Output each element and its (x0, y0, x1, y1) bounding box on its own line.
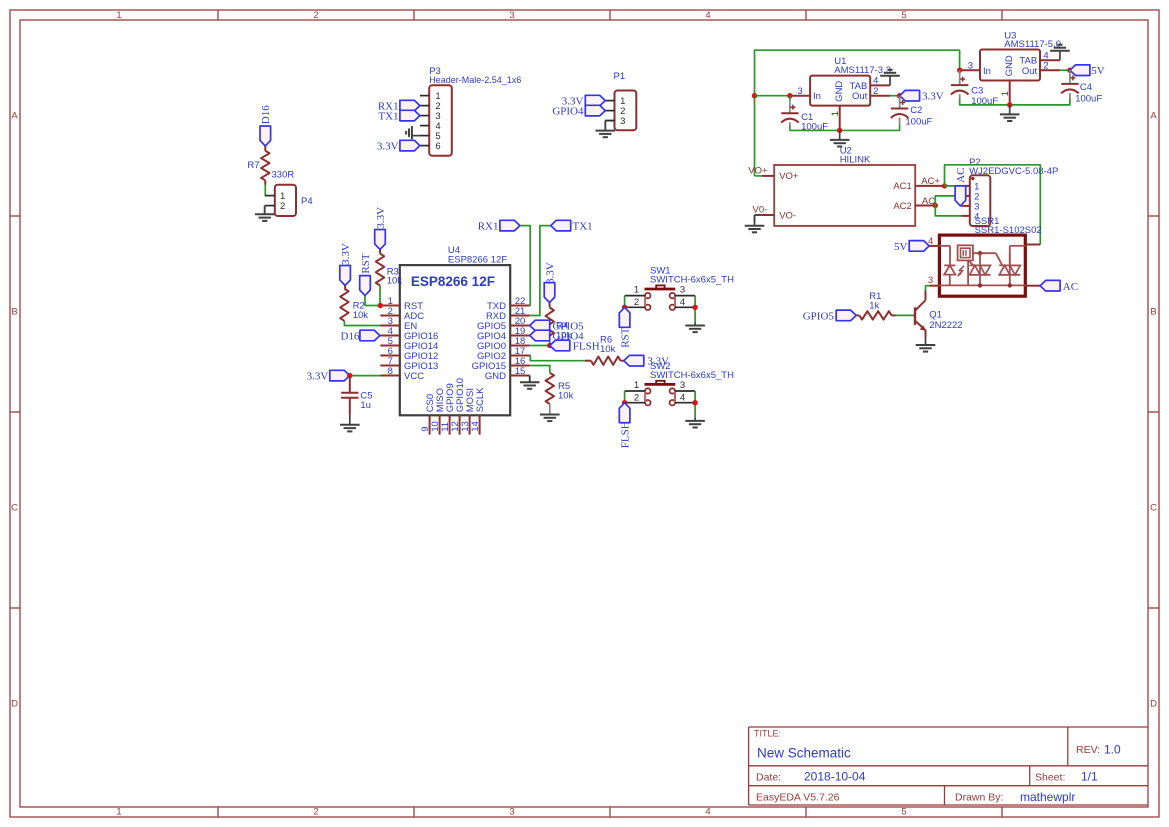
P1 pins 1-3 (605, 100, 614, 102)
net flag GPIO5 (836, 310, 856, 321)
SSR1 right bottom pin (1025, 285, 1040, 287)
capacitor C3 lead (959, 94, 961, 99)
regulator U3 AMS1117-5.0 (980, 50, 1040, 81)
svg-text:2: 2 (634, 297, 639, 308)
capacitor C3 lead (959, 70, 961, 85)
SW pin 4 (675, 306, 695, 308)
svg-text:C2: C2 (910, 105, 922, 116)
svg-text:3.3V: 3.3V (340, 243, 352, 265)
wire (344, 286, 346, 289)
svg-text:Date:: Date: (756, 772, 781, 784)
net flag GPIO4 (530, 330, 550, 341)
U3 pin 1 GND (1009, 81, 1011, 105)
SW pin 3 (675, 390, 695, 392)
capacitor C4 lead (1069, 70, 1071, 84)
svg-text:4: 4 (873, 76, 878, 87)
junction (752, 93, 757, 98)
svg-text:3.3V: 3.3V (307, 371, 329, 383)
wire (1060, 69, 1070, 71)
svg-text:SCLK: SCLK (475, 387, 486, 412)
ground (529, 381, 531, 384)
header P1 (615, 91, 637, 131)
svg-text:AC2: AC2 (893, 201, 911, 212)
capacitor C1 lead (789, 101, 791, 114)
svg-text:3: 3 (680, 285, 685, 296)
svg-text:FLSH: FLSH (573, 340, 600, 352)
ground (inverted) (1059, 51, 1061, 61)
wire (926, 286, 930, 291)
wire (755, 95, 790, 97)
net flag FLSH (550, 340, 570, 351)
svg-text:5: 5 (901, 807, 906, 818)
svg-text:15: 15 (515, 366, 526, 377)
junction (957, 68, 962, 73)
svg-text:AC: AC (955, 168, 967, 183)
svg-text:3.3V: 3.3V (544, 262, 556, 284)
svg-text:3: 3 (928, 275, 933, 286)
svg-text:1: 1 (1000, 91, 1011, 96)
svg-text:3: 3 (620, 116, 625, 127)
SW pin 1 (625, 390, 646, 392)
wire GPIO15-R5 (530, 366, 550, 373)
svg-text:C: C (1150, 503, 1157, 514)
svg-text:1k: 1k (869, 301, 879, 312)
U2 pin AC1 (915, 185, 944, 187)
svg-text:3: 3 (968, 61, 973, 72)
svg-text:1: 1 (634, 285, 639, 296)
ground (1009, 105, 1011, 115)
svg-text:RST: RST (620, 327, 632, 347)
junction (547, 343, 552, 348)
transistor Q1 2N2222 (913, 314, 915, 316)
SW pin 3 (675, 295, 695, 297)
svg-text:2: 2 (313, 807, 318, 818)
junction (897, 93, 902, 98)
junction (942, 183, 947, 188)
U3 pin 4 TAB (1040, 59, 1060, 61)
SSR1 pin 4 (929, 245, 939, 247)
svg-text:10k: 10k (558, 391, 574, 402)
U4 right pins 22-15 (510, 305, 530, 307)
relay SSR1 box (939, 235, 1025, 296)
wire (379, 286, 381, 306)
connector P2 (970, 175, 991, 226)
svg-text:100uF: 100uF (1075, 94, 1102, 105)
header P3 (429, 85, 452, 156)
net flag 3.3V (400, 140, 420, 151)
svg-text:C4: C4 (1080, 82, 1092, 93)
wire (549, 341, 551, 345)
svg-text:3: 3 (797, 86, 802, 97)
ground (264, 206, 266, 215)
U1 pin 4 TAB (870, 84, 890, 86)
capacitor C2 lead (899, 96, 901, 109)
svg-text:TX1: TX1 (378, 111, 398, 123)
ground (549, 413, 551, 416)
svg-text:TITLE:: TITLE: (754, 729, 781, 739)
wire (264, 146, 266, 151)
svg-text:1: 1 (116, 807, 121, 818)
wire EN (344, 321, 380, 326)
junction (1007, 102, 1012, 107)
ground (inverted) (889, 76, 891, 86)
net flag 3.3V (R3) (375, 230, 386, 250)
svg-text:100uF: 100uF (905, 117, 932, 128)
junction (787, 93, 792, 98)
junction (347, 373, 352, 378)
svg-text:EasyEDA V5.7.26: EasyEDA V5.7.26 (756, 792, 840, 804)
wire (789, 96, 791, 101)
svg-text:1: 1 (634, 380, 639, 391)
svg-text:In: In (813, 91, 821, 102)
svg-text:VO+: VO+ (748, 166, 768, 177)
wire (379, 250, 381, 254)
svg-text:SWITCH-6x6x5_TH: SWITCH-6x6x5_TH (650, 370, 734, 381)
svg-text:14: 14 (470, 421, 481, 432)
svg-text:4: 4 (680, 392, 685, 403)
wire RX1-TXD (520, 226, 530, 306)
SW pin 2 (625, 402, 646, 404)
svg-text:2N2222: 2N2222 (929, 320, 962, 331)
svg-text:4: 4 (1043, 51, 1048, 62)
ground (839, 130, 841, 140)
wire AC2 to P2.4 (935, 206, 961, 216)
U1 pin 2 Out (870, 95, 890, 97)
svg-text:2: 2 (634, 392, 639, 403)
resistor R5 (546, 373, 554, 404)
svg-text:AC: AC (1063, 281, 1078, 293)
net flag 3.3V (R4) (544, 283, 555, 303)
U3 pin 3 In (960, 69, 980, 71)
svg-text:HILINK: HILINK (840, 154, 871, 165)
svg-text:3.3V: 3.3V (377, 141, 399, 153)
resistor R6 (591, 357, 621, 365)
capacitor C1 (781, 112, 798, 114)
svg-text:Sheet:: Sheet: (1035, 772, 1065, 784)
wire (621, 360, 624, 362)
resistor R3 (376, 254, 384, 286)
P4 pin 2 (265, 205, 275, 207)
svg-text:ESP8266 12F: ESP8266 12F (448, 255, 507, 266)
wire AC+ to P2.1 (945, 185, 962, 187)
svg-text:Q1: Q1 (929, 310, 942, 321)
svg-text:1: 1 (830, 111, 841, 116)
svg-text:3.3V: 3.3V (922, 91, 944, 103)
svg-text:6: 6 (435, 141, 440, 152)
switch SW2 (645, 383, 676, 386)
svg-text:RST: RST (360, 253, 372, 273)
svg-text:ESP8266 12F: ESP8266 12F (411, 274, 495, 289)
capacitor C3 (951, 84, 968, 86)
svg-text:2: 2 (313, 10, 318, 21)
net flag 5V (1070, 65, 1090, 76)
svg-text:WJ2EDGVC-5.08-4P: WJ2EDGVC-5.08-4P (969, 166, 1058, 177)
svg-text:3: 3 (509, 807, 514, 818)
svg-text:1u: 1u (360, 400, 371, 411)
title block grid (749, 726, 1148, 728)
SW pin 4 (675, 402, 695, 404)
svg-text:R7: R7 (247, 160, 259, 171)
net flag 3.3V (VCC) (330, 370, 350, 381)
SSR1 pin 3 (929, 285, 939, 287)
capacitor C1 lead (789, 122, 791, 126)
ground (694, 418, 696, 421)
svg-text:D16: D16 (260, 105, 272, 124)
svg-text:5V: 5V (1091, 65, 1105, 77)
U2 pin VO+ (762, 175, 774, 177)
svg-text:Drawn By:: Drawn By: (955, 792, 1003, 804)
P4 pin 1 (265, 195, 275, 197)
resistor R1 (859, 311, 891, 319)
U4 left pins 1-8 (380, 305, 400, 307)
svg-text:1/1: 1/1 (1081, 770, 1098, 784)
svg-text:GND: GND (485, 371, 506, 382)
wire VCC (350, 375, 381, 377)
svg-text:C: C (11, 503, 18, 514)
wire GPIO0 (530, 345, 550, 347)
capacitor C4 (1061, 83, 1078, 85)
P1 pin3 wire (605, 120, 614, 122)
wire (549, 404, 551, 414)
svg-text:REV:: REV: (1076, 744, 1100, 756)
svg-text:2: 2 (873, 86, 878, 97)
relay SSR1 internals (939, 245, 950, 247)
U4 bottom pins 9-14 (429, 415, 431, 434)
ground (754, 215, 756, 226)
wire (755, 214, 762, 216)
svg-text:4: 4 (705, 807, 710, 818)
svg-text:D: D (1150, 699, 1157, 710)
net flag AC (P2.3) (955, 186, 966, 206)
svg-text:B: B (1150, 307, 1156, 318)
svg-text:2: 2 (280, 201, 285, 212)
SW pin 2 (625, 306, 646, 308)
svg-text:VCC: VCC (404, 371, 424, 382)
net flag RX1 (400, 100, 420, 111)
switch SW1 (645, 288, 676, 291)
net flag TX1 (551, 220, 571, 231)
net flag TX1 (400, 110, 420, 121)
wire (624, 391, 626, 403)
svg-text:Out: Out (852, 91, 868, 102)
svg-text:VO-: VO- (779, 210, 796, 221)
svg-text:3.3V: 3.3V (375, 207, 387, 229)
net flag GPIO5 (530, 320, 550, 331)
net flag RST (360, 276, 371, 296)
capacitor C2 lead (899, 118, 901, 125)
junction (1067, 68, 1072, 73)
svg-text:TX1: TX1 (573, 221, 593, 233)
SW pin 1 (625, 295, 646, 297)
wire (694, 296, 696, 323)
svg-text:2018-10-04: 2018-10-04 (804, 770, 866, 784)
wire C1-C2 rail (790, 124, 900, 130)
wire (755, 175, 762, 177)
svg-text:5V: 5V (894, 241, 908, 253)
svg-text:10k: 10k (387, 276, 403, 287)
svg-text:GPIO4: GPIO4 (552, 106, 584, 118)
wire (264, 184, 266, 195)
wire (892, 314, 896, 316)
svg-text:4: 4 (705, 10, 710, 21)
wire (694, 391, 696, 418)
wire TX1-RXD (530, 226, 551, 316)
net flag 3.3V (585, 95, 605, 106)
ground (604, 121, 606, 131)
junction (933, 203, 938, 208)
svg-text:1.0: 1.0 (1104, 743, 1121, 757)
wire (890, 95, 900, 97)
svg-text:Out: Out (1022, 66, 1038, 77)
wire (585, 360, 591, 362)
IC U4 ESP8266 12F box (400, 265, 510, 415)
wire (549, 303, 551, 308)
U2 pin VO- (762, 214, 774, 216)
svg-text:GND: GND (1004, 55, 1015, 76)
net flag 3.3V (900, 90, 920, 101)
ground (349, 415, 351, 425)
wire C3-C4 rail (960, 98, 1070, 105)
U2 pin AC2 (915, 205, 935, 207)
svg-text:FLSH: FLSH (620, 421, 632, 448)
svg-text:AC+: AC+ (921, 176, 940, 187)
svg-text:P4: P4 (301, 196, 313, 207)
U4 GND pin wire (529, 376, 531, 382)
svg-text:B: B (11, 307, 17, 318)
svg-text:AMS1117-3.3: AMS1117-3.3 (834, 65, 891, 76)
net flag 3.3V (R6) (624, 355, 644, 366)
module U2 HILINK box (774, 165, 915, 226)
svg-text:New Schematic: New Schematic (757, 746, 851, 761)
svg-text:mathewplr: mathewplr (1020, 790, 1075, 804)
svg-text:In: In (983, 66, 991, 77)
net flag 3.3V (R2) (340, 266, 351, 286)
svg-text:10k: 10k (600, 344, 616, 355)
net flag 5V (909, 241, 929, 252)
P2 pins 1-4 (962, 185, 970, 187)
resistor R2 (340, 289, 348, 321)
svg-text:AC1: AC1 (893, 181, 911, 192)
svg-text:SWITCH-6x6x5_TH: SWITCH-6x6x5_TH (650, 274, 734, 285)
wire (856, 314, 859, 316)
wire (349, 398, 351, 415)
svg-text:5: 5 (901, 10, 906, 21)
svg-text:4: 4 (680, 297, 685, 308)
junction (378, 303, 383, 308)
net flag RX1 (500, 220, 520, 231)
capacitor C2 (891, 108, 908, 110)
capacitor C4 lead (1069, 93, 1071, 98)
net flag D16 (top) (260, 126, 271, 146)
svg-text:3: 3 (509, 10, 514, 21)
ground (925, 337, 927, 346)
wire main rail (755, 50, 960, 176)
net flag GPIO4 (585, 105, 605, 116)
svg-text:RX1: RX1 (478, 221, 499, 233)
svg-text:A: A (1150, 111, 1157, 122)
ground (694, 323, 696, 326)
net flag D16 (360, 330, 380, 341)
svg-text:3: 3 (680, 380, 685, 391)
U1 pin 1 GND (839, 106, 841, 131)
net flag RST (619, 307, 630, 327)
wire AC2 to P2.2 (935, 196, 961, 206)
wire GPIO2-R6 (530, 356, 585, 361)
U3 pin 2 Out (1040, 69, 1060, 71)
resistor R4 (546, 308, 554, 342)
svg-text:AMS1117-5.0: AMS1117-5.0 (1004, 39, 1061, 50)
svg-text:10k: 10k (353, 310, 369, 321)
resistor R7 (261, 151, 269, 181)
svg-text:D: D (11, 699, 18, 710)
SSR1 right top pin (1025, 244, 1040, 246)
P2 pin1 mark (971, 177, 974, 180)
svg-text:D16: D16 (341, 330, 360, 342)
regulator U1 AMS1117-3.3 (810, 76, 870, 106)
wire (365, 296, 380, 306)
ground (rotated) (412, 135, 420, 137)
svg-text:2: 2 (1043, 61, 1048, 72)
svg-text:GND: GND (834, 81, 845, 102)
net flag AC (1040, 280, 1060, 291)
wire (896, 314, 914, 316)
junction (837, 128, 842, 133)
svg-text:V0-: V0- (753, 205, 768, 216)
U1 pin 3 In (790, 95, 810, 97)
wire (264, 180, 266, 184)
svg-text:Header-Male-2.54_1x6: Header-Male-2.54_1x6 (429, 75, 521, 85)
wire AC+ up (945, 165, 1041, 245)
P3 pins 1-6 (420, 95, 429, 97)
svg-text:A: A (11, 111, 18, 122)
wire (624, 296, 626, 308)
svg-text:330R: 330R (272, 169, 295, 180)
svg-text:P1: P1 (614, 71, 626, 82)
net flag FLSH (619, 403, 630, 423)
header P4 (275, 185, 296, 216)
svg-text:VO+: VO+ (779, 171, 799, 182)
wire (349, 376, 351, 393)
svg-text:8: 8 (388, 366, 393, 377)
svg-text:GPIO5: GPIO5 (803, 311, 835, 323)
capacitor C5 (341, 392, 358, 394)
svg-text:1: 1 (116, 10, 121, 21)
